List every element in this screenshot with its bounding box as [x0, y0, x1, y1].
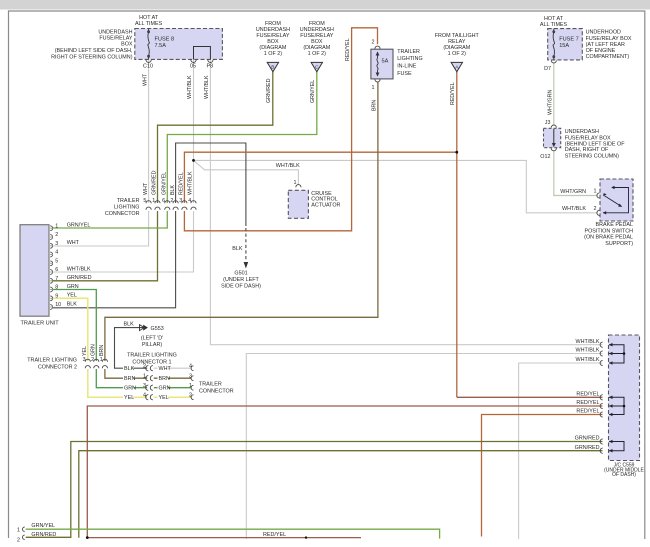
- fuse box internal link 05-P8: [194, 47, 211, 60]
- J/C C559 RED/YEL bus: [609, 397, 624, 414]
- svg-text:CONNECTOR: CONNECTOR: [105, 211, 140, 217]
- svg-text:LIGHTING: LIGHTING: [397, 56, 422, 62]
- wire WHT/BLK J/C row2 down to page bottom: [246, 354, 602, 540]
- junction connector C559 box: [609, 335, 640, 461]
- trailer lighting connector pin 1 symbol: [155, 201, 160, 204]
- fuse F8 symbol: [148, 29, 149, 60]
- wire RED/YEL J/C row2 to bottom: [87, 406, 602, 538]
- svg-text:3: 3: [55, 241, 58, 247]
- svg-text:WHT/BLK: WHT/BLK: [576, 357, 600, 363]
- svg-text:5: 5: [55, 259, 58, 265]
- wire RED/YEL taillight relay vertical: [456, 72, 458, 398]
- svg-text:C: C: [315, 64, 319, 70]
- trailer lighting connector pin 2 symbol: [173, 201, 178, 204]
- trailer lighting connector pin 5 symbol: [146, 201, 151, 204]
- trailer unit box: [20, 225, 49, 317]
- wire WHT/BLK 05 to connector pin4: [193, 59, 195, 203]
- svg-text:8: 8: [55, 285, 58, 291]
- svg-text:GRN/RED: GRN/RED: [266, 78, 272, 103]
- svg-text:ALL TIMES: ALL TIMES: [540, 22, 568, 28]
- connector2 pin 2 symbol: [94, 359, 99, 362]
- svg-text:10: 10: [55, 302, 61, 308]
- svg-text:15A: 15A: [559, 43, 569, 49]
- brake switch pin2 arc: [597, 210, 600, 215]
- svg-text:B: B: [271, 64, 274, 70]
- J/C C559 RED/YEL pin 1 arc: [600, 395, 603, 400]
- trailer unit pin 10 arc: [50, 305, 52, 310]
- trailer lighting connector pin 3 symbol: [182, 201, 187, 204]
- svg-text:STEERING COLUMN): STEERING COLUMN): [565, 153, 619, 159]
- svg-text:TRAILER: TRAILER: [397, 49, 420, 55]
- svg-text:CONNECTOR: CONNECTOR: [199, 389, 234, 395]
- wire YEL unit pin9 to connector2 pin3: [53, 298, 88, 361]
- trailer connector pin 2 arc: [191, 395, 193, 400]
- wire WHT below connector to trailer unit pin3: [53, 211, 149, 246]
- J/C C559 GRN/RED pin 2 arc: [600, 448, 603, 453]
- pin 05 arc: [191, 60, 196, 63]
- svg-text:2: 2: [55, 232, 58, 238]
- in-line fuse symbol: [377, 52, 378, 76]
- wire RED/YEL J/C row3 down: [482, 415, 603, 537]
- trailer unit pin 5 arc: [50, 261, 52, 266]
- underhood fuse/relay box: [548, 29, 583, 60]
- svg-text:1: 1: [594, 189, 597, 195]
- svg-text:ALL TIMES: ALL TIMES: [135, 21, 163, 27]
- trailer unit stub wires: [50, 227, 53, 229]
- pin J3 arc: [551, 125, 556, 128]
- svg-text:DASH, RIGHT OF: DASH, RIGHT OF: [565, 147, 609, 153]
- wire BRN in-line fuse to trailer lighting connector2 pin1: [105, 82, 378, 362]
- trailer connector pin 4 arc: [191, 366, 193, 371]
- svg-text:5A: 5A: [382, 58, 389, 64]
- svg-text:IN-LINE: IN-LINE: [397, 64, 417, 70]
- svg-text:ACTUATOR: ACTUATOR: [311, 202, 340, 208]
- svg-text:BLK: BLK: [67, 301, 78, 307]
- svg-text:RED/YEL: RED/YEL: [450, 82, 456, 105]
- svg-text:GRN: GRN: [91, 344, 97, 356]
- svg-text:GRN/RED: GRN/RED: [575, 445, 600, 451]
- underdash junction box J3-O12: [544, 128, 561, 147]
- svg-text:1 OF 2): 1 OF 2): [264, 51, 282, 57]
- svg-text:BLK: BLK: [124, 366, 135, 372]
- svg-text:(UNDER LEFT: (UNDER LEFT: [223, 277, 259, 283]
- wire GRN/YEL triangle C to connector pin6: [167, 72, 316, 203]
- svg-text:WHT/BLK: WHT/BLK: [204, 75, 210, 99]
- trailer connector pin 1 arc: [191, 385, 193, 390]
- wire GRN unit pin8 to connector2 pin2: [53, 290, 96, 362]
- svg-text:D7: D7: [544, 66, 551, 72]
- connector1 row 1 symbol: [146, 376, 149, 381]
- wire RED/YEL bottom horizontal: [87, 537, 361, 539]
- wire YEL connector1 to trailer connector pin2: [154, 396, 192, 398]
- svg-text:BRN: BRN: [159, 376, 170, 382]
- svg-text:(ON BRAKE PEDAL: (ON BRAKE PEDAL: [584, 235, 633, 241]
- svg-text:YEL: YEL: [82, 346, 88, 356]
- svg-text:BRN: BRN: [99, 345, 105, 356]
- wire GRN/RED triangle B to connector pin1: [158, 72, 273, 203]
- svg-text:YEL: YEL: [159, 395, 169, 401]
- connector1 row 2 left label: [123, 366, 133, 372]
- svg-text:YEL: YEL: [124, 395, 134, 401]
- wire WHT/BLK dot to brake pedal switch: [194, 160, 598, 212]
- cruise control actuator box: [288, 190, 308, 218]
- svg-text:UNDERDASH: UNDERDASH: [565, 129, 599, 135]
- svg-text:GRN: GRN: [67, 284, 79, 290]
- svg-text:FUSE: FUSE: [397, 71, 412, 77]
- svg-text:BLK: BLK: [232, 246, 243, 252]
- svg-text:OF ENGINE: OF ENGINE: [586, 48, 616, 54]
- svg-text:GRN/RED: GRN/RED: [31, 532, 56, 538]
- svg-text:9: 9: [55, 294, 58, 300]
- svg-text:4: 4: [55, 250, 58, 256]
- svg-text:2: 2: [372, 40, 375, 46]
- svg-text:1: 1: [17, 528, 20, 534]
- wire GRN/RED J/C row1 to bottom pin2: [26, 442, 603, 538]
- svg-text:WHT/BLK: WHT/BLK: [67, 266, 91, 272]
- svg-text:6: 6: [55, 267, 58, 273]
- trailer unit pin 1 arc: [50, 226, 52, 231]
- wire BLK connector pin2 to G501: [176, 143, 246, 226]
- wire WHT C10 to connector pin5: [148, 59, 150, 203]
- svg-text:TRAILER LIGHTING: TRAILER LIGHTING: [27, 358, 77, 364]
- svg-text:7.5A: 7.5A: [155, 43, 167, 49]
- connector1 row 3 symbol: [146, 385, 149, 390]
- svg-text:CONNECTOR 2: CONNECTOR 2: [38, 365, 77, 371]
- J/C C559 RED/YEL pin 3 arc: [600, 412, 603, 417]
- svg-text:LIGHTING: LIGHTING: [114, 205, 139, 211]
- svg-text:1 OF 2): 1 OF 2): [448, 51, 466, 57]
- svg-text:FUSE/RELAY BOX: FUSE/RELAY BOX: [586, 36, 632, 42]
- svg-text:05: 05: [190, 63, 196, 69]
- junction dot RED/YEL bottom: [86, 536, 89, 539]
- junction dot WHT/BLK: [192, 159, 195, 162]
- ground G553 symbol: [139, 327, 144, 329]
- J/C C559 GRN/RED bus: [609, 442, 624, 451]
- svg-text:WHT/GRN: WHT/GRN: [560, 189, 586, 195]
- svg-text:C10: C10: [143, 63, 153, 69]
- svg-text:GRN/YEL: GRN/YEL: [31, 523, 55, 529]
- brake switch internal contact: [603, 193, 606, 196]
- svg-text:1: 1: [294, 180, 297, 186]
- svg-text:2: 2: [594, 206, 597, 212]
- wire WHT/GRN D7 to J3: [553, 63, 555, 125]
- svg-text:SIDE OF DASH): SIDE OF DASH): [221, 284, 261, 290]
- triangle A from taillight relay: [451, 62, 462, 71]
- svg-text:WHT/BLK: WHT/BLK: [187, 75, 193, 99]
- triangle C from underdash box: [311, 62, 322, 71]
- svg-text:G553: G553: [151, 326, 164, 332]
- trailer unit pin 3 arc: [50, 243, 52, 248]
- J/C C559 WHT/BLK pin 3 arc: [600, 360, 603, 365]
- svg-text:7: 7: [55, 276, 58, 282]
- svg-text:RIGHT OF STEERING COLUMN): RIGHT OF STEERING COLUMN): [51, 54, 133, 60]
- J/C C559 RED/YEL pin 2 arc: [600, 403, 603, 408]
- svg-text:2: 2: [17, 538, 20, 544]
- connector1 row 4 symbol: [146, 395, 149, 400]
- svg-text:FUSE 8: FUSE 8: [155, 37, 175, 43]
- wire RED/YEL connector pin3 to in-line fuse pin2: [184, 28, 377, 231]
- svg-text:RED/YEL: RED/YEL: [576, 392, 599, 398]
- wire GRN below connector2 to connector1 row3: [96, 369, 147, 388]
- svg-text:YEL: YEL: [67, 293, 77, 299]
- svg-text:G501: G501: [234, 271, 247, 277]
- trailer unit pin 9 arc: [50, 296, 52, 301]
- svg-text:WHT/GRN: WHT/GRN: [548, 90, 554, 115]
- svg-text:RED/YEL: RED/YEL: [263, 532, 286, 538]
- wire BRN below connector2 to connector1 row2: [105, 369, 147, 378]
- J/C C559 WHT/BLK bus: [609, 345, 624, 363]
- svg-text:GRN: GRN: [124, 386, 136, 392]
- wire RED/YEL connector pin3 to taillight relay node: [184, 152, 456, 203]
- wire GRN connector1 to trailer connector pin1: [154, 387, 192, 389]
- wire GRN/YEL bottom component pin1: [26, 529, 440, 538]
- svg-text:WHT: WHT: [67, 240, 80, 246]
- svg-text:TRAILER: TRAILER: [117, 198, 140, 204]
- cruise pin1 arc: [296, 185, 301, 188]
- connector2 pin 1 symbol: [102, 359, 107, 362]
- underdash fuse/relay box: [135, 29, 223, 60]
- brake switch pin1 arc: [597, 193, 600, 198]
- svg-text:BLK: BLK: [170, 185, 176, 195]
- wire WHT/BLK J/C row3 down: [519, 363, 603, 539]
- trailer unit pin 8 arc: [50, 287, 52, 292]
- pin C10 arc: [146, 60, 151, 63]
- wire YEL below connector2 to connector1 row4: [88, 369, 147, 397]
- brake pedal position switch box: [600, 179, 633, 221]
- trailer unit pin 4 arc: [50, 252, 52, 257]
- wire WHT connector1 to trailer connector pin4: [154, 367, 192, 369]
- svg-text:UNDERHOOD: UNDERHOOD: [586, 30, 621, 36]
- svg-text:TRAILER UNIT: TRAILER UNIT: [21, 321, 60, 327]
- svg-text:GRN/YEL: GRN/YEL: [310, 80, 316, 103]
- svg-text:RED/YEL: RED/YEL: [576, 409, 599, 415]
- svg-text:(LEFT 'D': (LEFT 'D': [141, 336, 163, 342]
- wire BLK G553 to connector1 row1: [115, 328, 148, 369]
- svg-text:CONNECTOR 1: CONNECTOR 1: [132, 360, 171, 366]
- svg-text:RED/YEL: RED/YEL: [179, 172, 185, 195]
- svg-text:J3: J3: [545, 120, 551, 126]
- svg-text:TRAILER LIGHTING: TRAILER LIGHTING: [127, 353, 177, 359]
- connector1 row 1 left label: [123, 376, 133, 382]
- svg-text:PILLAR): PILLAR): [142, 342, 163, 348]
- connector1 row 2 right label: [158, 366, 168, 372]
- svg-text:GRN: GRN: [159, 386, 171, 392]
- junction box internal arrow: [553, 129, 555, 145]
- J/C C559 WHT/BLK pin 1 arc: [600, 342, 603, 347]
- svg-text:FUSE 7: FUSE 7: [559, 37, 579, 43]
- app gray top band: [0, 0, 650, 10]
- svg-text:GRN/RED: GRN/RED: [152, 170, 158, 195]
- svg-text:SUPPORT): SUPPORT): [605, 241, 633, 247]
- svg-text:RED/YEL: RED/YEL: [576, 400, 599, 406]
- connector1 row 3 right label: [158, 385, 168, 391]
- svg-text:WHT: WHT: [143, 182, 149, 195]
- svg-text:WHT/BLK: WHT/BLK: [576, 348, 600, 354]
- trailer unit pin 6 arc: [50, 270, 52, 275]
- J/C C559 WHT/BLK pin 2 arc: [600, 351, 603, 356]
- in-line fuse pin2 arc: [375, 46, 380, 49]
- svg-text:1: 1: [372, 85, 375, 91]
- trailer unit pin 7 arc: [50, 278, 52, 283]
- trailer lighting in-line fuse box: [371, 49, 393, 79]
- svg-text:GRN/RED: GRN/RED: [67, 275, 92, 281]
- pin P8 arc: [208, 60, 213, 63]
- svg-text:WHT/BLK: WHT/BLK: [188, 171, 194, 195]
- svg-text:BRN: BRN: [372, 100, 378, 111]
- ground G501 dashed wire: [245, 228, 247, 262]
- trailer unit pin 2 arc: [50, 235, 52, 240]
- svg-text:BRN: BRN: [124, 376, 135, 382]
- wire GRN/RED J/C row2 down: [79, 451, 603, 538]
- wire GRN/RED below connector to unit pin7: [53, 211, 158, 281]
- svg-text:OF DASH): OF DASH): [612, 472, 636, 478]
- svg-text:1: 1: [55, 223, 58, 229]
- svg-text:1 OF 2): 1 OF 2): [308, 51, 326, 57]
- connector1 row 1 right label: [158, 376, 168, 382]
- wire BLK below connector to unit pin10: [53, 211, 176, 308]
- svg-text:POSITION SWITCH: POSITION SWITCH: [584, 228, 633, 234]
- svg-text:RED/YEL: RED/YEL: [345, 38, 351, 61]
- junction dot RED/YEL bottom2: [305, 536, 307, 538]
- svg-text:TRAILER: TRAILER: [199, 382, 222, 388]
- svg-text:(BEHIND LEFT SIDE OF DASH,: (BEHIND LEFT SIDE OF DASH,: [55, 48, 133, 54]
- triangle B from underdash box: [267, 62, 278, 71]
- connector1 row 3 left label: [123, 385, 133, 391]
- pin O12 arc: [551, 148, 556, 151]
- junction dot RED/YEL node: [455, 151, 458, 154]
- svg-text:GRN/RED: GRN/RED: [575, 436, 600, 442]
- wire WHT/BLK branch to cruise actuator: [194, 160, 299, 184]
- svg-text:BLK: BLK: [124, 322, 135, 328]
- fuse F7 symbol: [553, 29, 554, 60]
- svg-text:WHT: WHT: [159, 366, 172, 372]
- J/C C559 GRN/RED pin 1 arc: [600, 439, 603, 444]
- in-line fuse pin1 arc: [375, 79, 380, 82]
- svg-text:COMPARTMENT): COMPARTMENT): [586, 54, 630, 60]
- svg-text:GRN/YEL: GRN/YEL: [162, 172, 168, 195]
- svg-text:BOX: BOX: [121, 42, 133, 48]
- svg-text:P8: P8: [207, 63, 214, 69]
- connector1 row 4 right label: [158, 395, 168, 401]
- svg-text:WHT/BLK: WHT/BLK: [276, 163, 300, 169]
- connector2 pin 3 symbol: [85, 359, 90, 362]
- trailer connector pin 3 arc: [191, 376, 193, 381]
- wire WHT/BLK below connector to unit pin6: [53, 211, 194, 272]
- wire BRN connector1 to trailer connector pin3: [154, 377, 192, 379]
- trailer lighting connector pin 6 symbol: [165, 201, 170, 204]
- wire RED/YEL to J/C C559 row1: [457, 396, 603, 398]
- connector1 row 2 symbol: [146, 366, 149, 371]
- svg-text:WHT/BLK: WHT/BLK: [562, 206, 586, 212]
- wire WHT/BLK P8 to J/C C559 row1: [210, 59, 602, 344]
- pin D7 arc: [551, 60, 556, 63]
- svg-text:GRN/YEL: GRN/YEL: [67, 223, 91, 229]
- wire WHT/GRN O12 to brake pedal pin1: [554, 151, 598, 196]
- trailer lighting connector pin 4 symbol: [191, 201, 196, 204]
- wire GRN/YEL below connector to unit pin1: [53, 211, 167, 228]
- svg-text:WHT: WHT: [142, 73, 148, 86]
- svg-text:WHT/BLK: WHT/BLK: [576, 339, 600, 345]
- svg-text:O12: O12: [540, 154, 550, 160]
- connector1 row 4 left label: [123, 395, 133, 401]
- svg-text:BRAKE PEDAL: BRAKE PEDAL: [596, 222, 633, 228]
